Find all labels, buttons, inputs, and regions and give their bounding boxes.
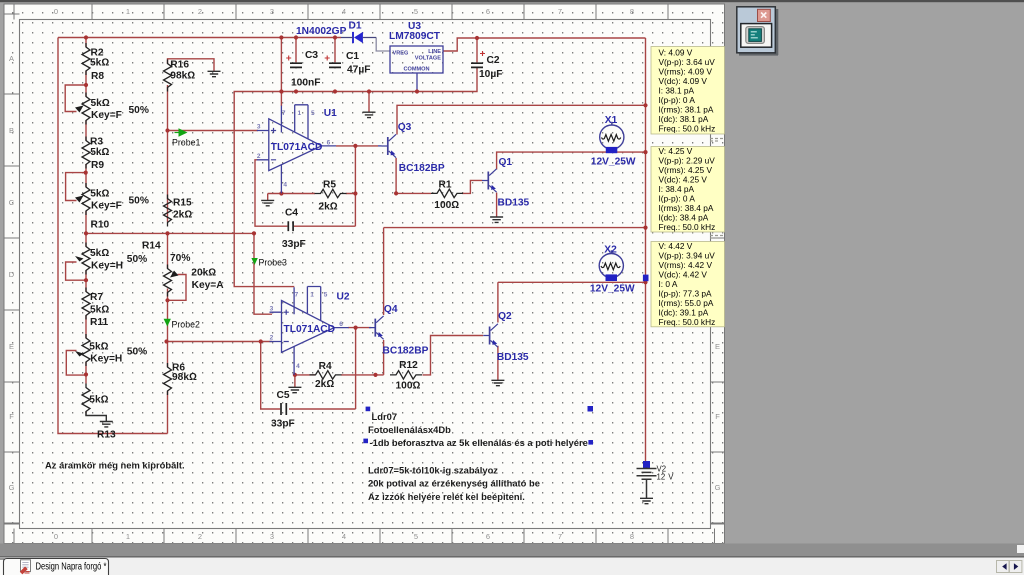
svg-text:2: 2: [198, 7, 202, 16]
svg-text:R14: R14: [142, 241, 161, 252]
svg-text:LINE: LINE: [428, 49, 441, 55]
zone letters: [9, 54, 721, 492]
svg-text:I(p-p): 0 A: I(p-p): 0 A: [659, 95, 696, 105]
wire ground stub on rail y=91.5: [368, 92, 370, 112]
junction left column / top rail: [84, 35, 88, 39]
probe annotation box 1: [651, 47, 725, 135]
wire horizontal y=233.4: [86, 232, 254, 234]
junction U2 inverting input wire: [164, 339, 168, 343]
ground Q2 emitter: [491, 380, 504, 385]
node blue square on rail: [643, 275, 649, 282]
junction U1 supply / top rail: [279, 35, 283, 39]
svg-text:Q1: Q1: [499, 157, 513, 168]
wire U1 pin7 supply drop: [280, 38, 282, 107]
svg-text:R11: R11: [90, 317, 108, 328]
svg-text:2kΩ: 2kΩ: [315, 379, 334, 390]
resistor R6: [164, 363, 172, 395]
svg-text:4: 4: [342, 7, 346, 16]
svg-text:G: G: [9, 483, 15, 492]
svg-text:6: 6: [486, 7, 490, 16]
svg-text:Key=F: Key=F: [91, 201, 122, 212]
minimized instrument icon window: [737, 7, 779, 56]
wire +V rail vertical: [645, 38, 647, 461]
potentiometer R11: [82, 334, 90, 366]
svg-text:Key=F: Key=F: [91, 110, 122, 121]
resistor R13: [82, 384, 90, 416]
svg-text:A: A: [9, 54, 14, 63]
probe Probe1: [179, 128, 188, 136]
wire Q4 collector riser to rail: [384, 228, 646, 315]
wire pot R10 bracket: [66, 262, 86, 280]
junction C2 / output wire: [475, 36, 479, 40]
svg-text:C: C: [9, 198, 15, 207]
wire top rail: [58, 37, 341, 39]
svg-text:47µF: 47µF: [347, 65, 370, 76]
svg-text:F: F: [9, 412, 14, 421]
svg-text:2kΩ: 2kΩ: [173, 210, 192, 221]
svg-text:33pF: 33pF: [282, 239, 306, 250]
svg-text:B: B: [9, 126, 14, 135]
probe box handle marks: [710, 139, 723, 239]
resistor R7: [82, 288, 90, 320]
svg-text:100Ω: 100Ω: [434, 200, 459, 211]
resistor R3: [82, 137, 90, 169]
svg-text:LM7809CT: LM7809CT: [389, 31, 441, 42]
potentiometer R9: [82, 183, 90, 215]
tab document icon: [20, 560, 31, 575]
svg-text:U2: U2: [337, 292, 350, 303]
svg-text:V(p-p): 2.29 uV: V(p-p): 2.29 uV: [659, 155, 716, 165]
wire R13 to ground jog: [86, 412, 106, 422]
ground U2 pin4: [288, 387, 301, 392]
junction C1 / top rail: [333, 35, 337, 39]
svg-text:Probe1: Probe1: [172, 138, 200, 148]
svg-text:C2: C2: [487, 55, 500, 66]
svg-text:1: 1: [126, 7, 130, 16]
svg-text:33pF: 33pF: [271, 419, 295, 430]
wire x=167.5 column segments: [167, 85, 169, 434]
zone numbers top: [54, 7, 634, 541]
svg-text:R8: R8: [91, 71, 104, 82]
svg-text:4: 4: [342, 532, 346, 541]
svg-text:6: 6: [486, 532, 490, 541]
svg-text:3: 3: [270, 532, 274, 541]
wire pot R11 bracket: [66, 351, 86, 376]
resistor R12: [390, 371, 422, 379]
svg-text:R10: R10: [91, 220, 110, 231]
svg-text:V: 4.25 V: V: 4.25 V: [659, 146, 693, 156]
nav arrow buttons: [997, 561, 1010, 573]
svg-text:D: D: [9, 270, 15, 279]
svg-text:Az áramkör még nem kipróbált.: Az áramkör még nem kipróbált.: [45, 460, 185, 471]
svg-text:R15: R15: [173, 198, 192, 209]
svg-text:20k potival az érzékenység áll: 20k potival az érzékenység állítható be: [368, 478, 540, 489]
junction +V rail / X2 bottom row: [643, 280, 647, 284]
junction +V rail / X1 top row: [643, 103, 647, 107]
leftmost partial tab: [0, 559, 8, 575]
svg-text:5kΩ: 5kΩ: [90, 248, 109, 259]
svg-text:F: F: [715, 412, 720, 421]
svg-text:50%: 50%: [129, 196, 149, 207]
svg-text:5kΩ: 5kΩ: [91, 98, 110, 109]
ground U1 pin4: [261, 200, 274, 205]
potentiometer R8: [82, 93, 90, 125]
tab Design Napra forgo: [4, 559, 109, 575]
svg-text:5: 5: [414, 7, 418, 16]
junction ground stub / rail: [367, 89, 371, 93]
svg-text:I(dc): 38.1 pA: I(dc): 38.1 pA: [659, 114, 709, 124]
svg-text:12V_25W: 12V_25W: [590, 283, 635, 294]
svg-text:I: 0 A: I: 0 A: [659, 279, 678, 289]
svg-text:R4: R4: [319, 361, 332, 372]
svg-text:V(dc): 4.42 V: V(dc): 4.42 V: [659, 270, 708, 280]
wire Q3 emitter to R1 node: [396, 158, 431, 193]
wire U1 output to Q3 base: [336, 145, 378, 147]
svg-text:Key=H: Key=H: [91, 261, 123, 272]
svg-text:I(dc): 38.4 pA: I(dc): 38.4 pA: [659, 212, 709, 222]
svg-text:I(rms): 38.4 pA: I(rms): 38.4 pA: [659, 203, 714, 213]
svg-text:I(rms): 38.1 pA: I(rms): 38.1 pA: [659, 104, 714, 114]
svg-text:C1: C1: [346, 51, 359, 62]
svg-text:8: 8: [630, 7, 634, 16]
svg-text:R13: R13: [97, 430, 116, 441]
wire left column x=86 segments: [85, 38, 87, 414]
transistor Q4: [369, 316, 384, 339]
wire U2 -input feedback with C5: [167, 328, 356, 409]
junction C3 / ground rail: [294, 89, 298, 93]
junction R2 / pot R8: [84, 83, 88, 87]
svg-text:D1: D1: [349, 20, 362, 31]
resistor R15: [164, 195, 172, 227]
probe Probe2: [164, 319, 171, 327]
svg-text:R9: R9: [91, 160, 104, 171]
sheet inner frame: [20, 20, 711, 529]
svg-text:20kΩ: 20kΩ: [191, 268, 216, 279]
svg-text:Q4: Q4: [384, 304, 398, 315]
wire Q2 collector riser / X2 row: [498, 282, 646, 322]
junction R5 / feedback: [353, 191, 357, 195]
wire D1 to U3 input: [376, 38, 390, 52]
junction pot R11 wiper: [84, 372, 88, 376]
ground R16: [208, 71, 221, 76]
junction C3 / top rail: [294, 35, 298, 39]
svg-text:E: E: [715, 342, 720, 351]
svg-text:R12: R12: [399, 360, 418, 371]
svg-text:-1db beforasztva az 5k ellenál: -1db beforasztva az 5k ellenálás és a po…: [370, 437, 588, 448]
transistor Q2: [483, 324, 498, 347]
op-amp U1: [257, 105, 336, 194]
junction U2 pin4 / R4: [293, 373, 297, 377]
wire pot R9 bracket: [66, 173, 86, 201]
svg-text:1: 1: [126, 532, 130, 541]
wire C3 C1 C2 top pins: [296, 38, 477, 63]
svg-text:Freq.: 50.0 kHz: Freq.: 50.0 kHz: [659, 123, 716, 133]
junction R15 / pot R14: [165, 231, 169, 235]
svg-text:R7: R7: [90, 292, 103, 303]
svg-text:I(rms): 55.0 pA: I(rms): 55.0 pA: [659, 298, 714, 308]
svg-text:0: 0: [54, 7, 58, 16]
svg-text:2kΩ: 2kΩ: [318, 202, 337, 213]
svg-text:COMMON: COMMON: [403, 67, 429, 73]
svg-text:VOLTAGE: VOLTAGE: [415, 56, 441, 62]
junction R4 / R12 / Q4 emitter: [373, 373, 377, 377]
svg-text:3: 3: [270, 7, 274, 16]
svg-text:C5: C5: [277, 390, 290, 401]
svg-text:I(p-p): 77.3 pA: I(p-p): 77.3 pA: [659, 289, 713, 299]
svg-text:100nF: 100nF: [291, 77, 320, 88]
capacitor C3: [290, 63, 302, 68]
resistor R1: [431, 189, 463, 197]
svg-text:Az izzók helyére relét kel beé: Az izzók helyére relét kel beépiteni.: [368, 491, 525, 502]
wire R1 to Q1 base jog: [462, 180, 482, 193]
svg-text:5kΩ: 5kΩ: [90, 147, 109, 158]
svg-text:Freq.: 50.0 kHz: Freq.: 50.0 kHz: [659, 222, 716, 232]
svg-text:Key=A: Key=A: [192, 280, 225, 291]
junction U1 output node: [353, 144, 357, 148]
probe Probe3: [251, 258, 257, 265]
svg-text:V(p-p): 3.64 uV: V(p-p): 3.64 uV: [659, 57, 716, 67]
svg-text:V(rms): 4.09 V: V(rms): 4.09 V: [659, 66, 713, 76]
svg-text:I(p-p): 0 A: I(p-p): 0 A: [659, 193, 696, 203]
scrollbar band: [0, 544, 1024, 557]
schematic sheet: [4, 4, 725, 544]
svg-text:Ldr07: Ldr07: [372, 411, 398, 422]
resistor R4: [310, 371, 342, 379]
junction supply / ground rail: [279, 89, 283, 93]
junction pot R14 wiper: [165, 298, 169, 302]
svg-text:Probe2: Probe2: [172, 320, 200, 330]
wire y=152.1 X1 row to Q1 collector: [497, 152, 646, 169]
junction C1 / ground rail: [333, 89, 337, 93]
capacitor C1: [329, 63, 341, 68]
svg-text:R5: R5: [323, 179, 336, 190]
wire R16 top to ground: [168, 59, 215, 71]
svg-text:V(rms): 4.42 V: V(rms): 4.42 V: [659, 260, 713, 270]
svg-text:Design Napra forgó *: Design Napra forgó *: [35, 560, 106, 571]
svg-text:I: 38.4 pA: I: 38.4 pA: [659, 184, 695, 194]
svg-text:BD135: BD135: [498, 197, 530, 208]
node Probe1: [165, 128, 169, 132]
svg-text:5: 5: [414, 532, 418, 541]
svg-text:I(dc): 39.1 pA: I(dc): 39.1 pA: [659, 308, 709, 318]
svg-text:Fotoellenálásx4Db: Fotoellenálásx4Db: [368, 424, 451, 435]
svg-text:2: 2: [198, 532, 202, 541]
wire R5 row / U1 pin4 ground: [268, 194, 356, 201]
wire U2 output to Q4 base: [348, 327, 371, 329]
wire R12 to Q2 base jog: [423, 336, 484, 375]
wire Q4 emitter to R12 node: [376, 340, 384, 375]
op-amp U2: [270, 287, 349, 376]
svg-text:V(dc): 4.09 V: V(dc): 4.09 V: [659, 76, 708, 86]
ground Q1 emitter: [490, 217, 503, 222]
svg-text:7: 7: [558, 532, 562, 541]
wire left outer loop: [58, 38, 168, 434]
resistor R2: [82, 43, 90, 75]
svg-text:BC182BP: BC182BP: [399, 163, 445, 174]
svg-text:V(dc): 4.25 V: V(dc): 4.25 V: [659, 174, 708, 184]
svg-text:98kΩ: 98kΩ: [170, 71, 195, 82]
junction pot R10 wiper: [84, 278, 88, 282]
zone tick lines: [4, 4, 725, 544]
svg-text:U1: U1: [324, 108, 337, 119]
svg-text:1N4002GP: 1N4002GP: [296, 26, 347, 37]
wire probe1 node to U1 +input: [168, 130, 259, 132]
junction Probe3 branch: [252, 231, 256, 235]
wire U1 -input feedback with C4: [255, 146, 355, 226]
junction U2 output node: [354, 326, 358, 330]
junction C5 branch: [259, 339, 263, 343]
junction Q3 emitter / R1: [394, 191, 398, 195]
svg-text:100Ω: 100Ω: [395, 381, 420, 392]
battery V2: [643, 461, 650, 468]
svg-text:V(p-p): 3.94 uV: V(p-p): 3.94 uV: [659, 251, 716, 261]
junction left column / mid wire: [84, 231, 88, 235]
resistor R5: [315, 189, 347, 197]
probe annotation box 2: [651, 146, 725, 232]
junction U1 pin4 / R5 row: [279, 191, 283, 195]
svg-text:R16: R16: [170, 60, 189, 71]
svg-text:VREG: VREG: [393, 51, 409, 57]
svg-text:Key=H: Key=H: [90, 354, 122, 365]
svg-text:12 V: 12 V: [657, 473, 675, 482]
svg-text:50%: 50%: [129, 105, 149, 116]
wire Q2 emitter to ground: [497, 346, 499, 380]
ground V2: [640, 498, 653, 503]
svg-text:Q2: Q2: [498, 311, 512, 322]
svg-text:BD135: BD135: [497, 352, 529, 363]
probe annotation box 3: [651, 241, 725, 327]
svg-text:7: 7: [558, 7, 562, 16]
svg-text:R1: R1: [438, 179, 451, 190]
junction +V rail / X1 bottom row: [643, 150, 647, 154]
svg-text:C3: C3: [305, 50, 318, 61]
svg-text:0: 0: [54, 532, 58, 541]
wire R4 row: [295, 375, 376, 387]
window top edge line: [0, 0, 1024, 2]
svg-text:V: 4.09 V: V: 4.09 V: [659, 47, 693, 57]
svg-text:98kΩ: 98kΩ: [172, 372, 197, 383]
svg-text:G: G: [715, 483, 721, 492]
svg-text:C4: C4: [285, 208, 298, 219]
wire U3 output to rail: [443, 38, 646, 51]
wire probe3 drop to U2 +input: [254, 233, 272, 314]
svg-text:12V_25W: 12V_25W: [591, 156, 636, 167]
svg-text:5kΩ: 5kΩ: [90, 58, 109, 69]
resistor R16: [164, 60, 172, 92]
capacitor C2: [471, 63, 483, 68]
svg-text:E: E: [9, 342, 14, 351]
svg-text:70%: 70%: [170, 253, 190, 264]
wire pot R8 bracket: [65, 85, 85, 112]
svg-text:5kΩ: 5kΩ: [90, 305, 109, 316]
junction +V rail / Q4 collector row: [643, 226, 647, 230]
svg-text:50%: 50%: [127, 347, 147, 358]
transistor Q1: [482, 169, 497, 192]
wire U3 COMMON pin: [416, 73, 418, 92]
svg-text:Ldr07=5k-tól10k-ig szabályoz: Ldr07=5k-tól10k-ig szabályoz: [368, 465, 498, 476]
svg-text:5kΩ: 5kΩ: [89, 342, 108, 353]
wire y=105.3 to Q3 collector: [397, 105, 646, 134]
comment text block Ldr07: [366, 407, 371, 412]
svg-text:50%: 50%: [127, 254, 147, 265]
svg-text:V: 4.42 V: V: 4.42 V: [659, 241, 693, 251]
wire ground rail y=91.5 and U2 pin7 feed: [234, 68, 477, 286]
svg-text:Freq.: 50.0 kHz: Freq.: 50.0 kHz: [659, 317, 716, 327]
svg-text:I: 38.1 pA: I: 38.1 pA: [659, 85, 695, 95]
junction R3 / pot R9 wiper: [84, 171, 88, 175]
svg-text:5kΩ: 5kΩ: [89, 395, 108, 406]
transistor Q3: [382, 134, 397, 157]
ground main rail: [363, 112, 376, 117]
svg-text:10µF: 10µF: [479, 69, 502, 80]
ground R13: [100, 422, 113, 427]
svg-text:BC182BP: BC182BP: [383, 346, 429, 357]
junction U3 COMMON / rail: [415, 89, 419, 93]
tab bar: [0, 558, 1024, 575]
wire Q1 emitter to ground: [496, 193, 498, 217]
svg-text:V(rms): 4.25 V: V(rms): 4.25 V: [659, 165, 713, 175]
svg-text:5kΩ: 5kΩ: [90, 189, 109, 200]
svg-text:R3: R3: [90, 137, 103, 148]
svg-text:Q3: Q3: [398, 122, 412, 133]
svg-text:Probe3: Probe3: [259, 258, 287, 268]
svg-text:8: 8: [630, 532, 634, 541]
wire pot R14 bracket: [168, 275, 187, 301]
